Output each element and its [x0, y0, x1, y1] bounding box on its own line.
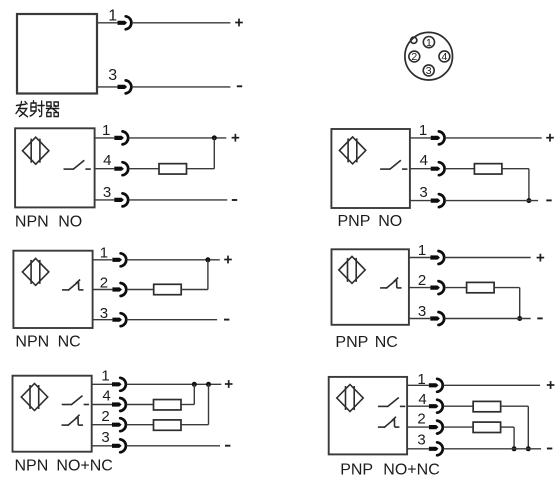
plus terminal	[235, 19, 243, 27]
wire pin4	[407, 405, 429, 407]
wire pin3 to minus	[443, 448, 541, 450]
sensor symbol diamond	[21, 384, 47, 411]
wire pin4 to load	[443, 405, 473, 407]
switch NC	[62, 280, 84, 291]
wire pin2	[93, 289, 113, 291]
svg-text:3: 3	[426, 65, 432, 77]
junction node A	[192, 382, 197, 387]
wire pin1 to plus	[129, 137, 227, 139]
wire pin3 to minus	[129, 199, 228, 201]
connector plug pin2	[429, 421, 443, 434]
wire vertical to pin3	[527, 406, 529, 449]
wire pin2	[407, 426, 429, 428]
wire load to node	[187, 168, 215, 170]
wire pin1	[93, 259, 113, 261]
wire pin3	[95, 199, 115, 201]
wire pin2 to load	[127, 289, 154, 291]
wire pin3 from transmitter box	[97, 86, 118, 88]
plus terminal	[547, 381, 555, 389]
svg-text:1: 1	[100, 245, 108, 262]
sensor symbol diamond	[23, 137, 49, 164]
connector plug pin3	[430, 312, 444, 325]
svg-text:3: 3	[108, 67, 117, 84]
minus terminal	[537, 317, 542, 319]
svg-text:2: 2	[100, 274, 108, 291]
connector plug pin4	[431, 162, 445, 175]
plus terminal	[232, 134, 240, 142]
svg-text:3: 3	[101, 429, 109, 446]
发	[16, 104, 25, 105]
wire vertical to pin3	[513, 427, 515, 449]
minus terminal	[547, 448, 552, 450]
minus terminal	[225, 445, 230, 447]
connector plug pin1	[112, 378, 126, 391]
wire pin4 to load	[126, 404, 154, 406]
wire pin3	[92, 445, 112, 447]
svg-text:3: 3	[419, 184, 427, 201]
wire vertical to node A	[193, 384, 195, 404]
load resistor	[467, 282, 495, 292]
connector plug pin2	[430, 281, 444, 294]
connector plug pin1	[431, 131, 445, 144]
connector plug pin1	[429, 379, 443, 392]
connector plug pin 3	[118, 80, 132, 93]
svg-text:1: 1	[417, 371, 425, 388]
switch NC	[62, 415, 84, 426]
svg-text:3: 3	[100, 305, 108, 322]
wire pin3	[409, 318, 430, 320]
switch NO	[62, 396, 89, 405]
wire load to corner	[493, 287, 519, 289]
sensor symbol diamond	[337, 385, 363, 412]
connector plug pin2	[112, 418, 126, 431]
wire load to corner	[502, 168, 529, 170]
wire pin4	[92, 404, 112, 406]
connector plug pin2	[112, 283, 126, 296]
wire pin4	[95, 168, 115, 170]
minus terminal	[224, 319, 229, 321]
svg-text:NC: NC	[375, 334, 398, 351]
sensor box PNP NC	[332, 249, 409, 324]
wire pin1 to plus	[445, 137, 542, 139]
transmitter label 发射器 (hand-drawn glyphs)	[16, 101, 59, 117]
transmitter box 发射器	[17, 14, 97, 94]
junction node	[205, 257, 210, 262]
wire pin1 to plus	[443, 384, 540, 386]
wire pin2 to load	[443, 426, 472, 428]
minus terminal	[232, 199, 237, 201]
pin 4 circle	[439, 51, 450, 62]
wire pin4	[410, 168, 431, 170]
器	[47, 102, 51, 106]
minus terminal	[546, 199, 551, 201]
connector face circle	[405, 32, 453, 80]
load resistor NC	[473, 422, 501, 432]
wire pin4 to load	[129, 168, 159, 170]
load resistor NC	[154, 420, 182, 430]
svg-text:1: 1	[102, 122, 110, 139]
svg-text:4: 4	[441, 51, 447, 63]
wire pin3	[410, 200, 431, 202]
svg-text:NPN: NPN	[15, 457, 49, 474]
svg-text:1: 1	[101, 368, 109, 385]
sensor symbol diamond	[339, 137, 365, 164]
svg-text:NPN: NPN	[15, 214, 49, 231]
plus terminal	[546, 134, 554, 142]
svg-text:3: 3	[417, 431, 425, 448]
connector plug pin3	[112, 439, 126, 452]
svg-text:2: 2	[101, 408, 109, 425]
wire pin3 to minus	[132, 86, 231, 88]
svg-text:NO+NC: NO+NC	[56, 457, 112, 474]
svg-text:4: 4	[103, 152, 111, 169]
wire pin1	[92, 383, 112, 385]
svg-text:2: 2	[417, 410, 425, 427]
sensor box NPN NO+NC	[13, 376, 92, 452]
load resistor NO	[154, 400, 182, 410]
connector plug pin3	[114, 193, 128, 206]
connector plug pin1	[112, 253, 126, 266]
svg-text:1: 1	[418, 242, 426, 259]
load resistor	[154, 284, 182, 294]
pin 2 circle	[409, 51, 420, 62]
connector plug pin4	[114, 162, 128, 175]
wire pin1 to plus	[127, 259, 220, 261]
sensor symbol diamond	[339, 256, 365, 283]
junction node	[526, 198, 531, 203]
wire pin3 to minus	[127, 319, 217, 321]
pin 3 circle	[423, 65, 434, 76]
connector plug pin3	[112, 313, 126, 326]
switch NC	[378, 417, 400, 428]
keying notch	[411, 37, 417, 43]
junction node A	[526, 446, 531, 451]
switch NO	[378, 398, 405, 407]
connector plug pin4	[112, 398, 126, 411]
wire vertical to node B	[208, 384, 210, 424]
svg-text:NPN: NPN	[15, 334, 49, 351]
junction node	[212, 135, 217, 140]
wire load to corner	[180, 404, 194, 406]
svg-text:2: 2	[418, 272, 426, 289]
wire node vertical	[213, 138, 215, 169]
svg-text:1: 1	[108, 8, 117, 25]
plus terminal	[224, 256, 232, 264]
svg-text:4: 4	[102, 388, 110, 405]
wire pin3 to minus	[445, 200, 538, 202]
wire pin1	[407, 384, 429, 386]
wire pin2 to load	[126, 424, 154, 426]
switch NO	[380, 160, 407, 169]
wire pin1	[410, 137, 431, 139]
minus terminal	[237, 85, 242, 87]
wire pin3 to minus	[445, 318, 531, 320]
load resistor	[159, 164, 187, 174]
svg-text:NC: NC	[58, 334, 81, 351]
plus terminal	[537, 254, 545, 262]
load resistor	[474, 164, 502, 174]
svg-text:3: 3	[103, 184, 111, 201]
connector plug pin4	[429, 400, 443, 413]
sensor box PNP NO+NC	[329, 377, 407, 455]
svg-text:NO: NO	[378, 213, 402, 230]
wire pin3	[93, 319, 113, 321]
junction node B	[512, 446, 517, 451]
wire pin2	[92, 424, 112, 426]
sensor box NPN NC	[13, 251, 92, 328]
wire pin1 to plus	[126, 383, 221, 385]
wire pin2	[409, 287, 430, 289]
sensor box PNP NO	[331, 129, 410, 208]
sensor symbol diamond	[22, 258, 48, 285]
wire load to corner	[181, 289, 208, 291]
svg-text:2: 2	[411, 51, 417, 63]
wire pin1 to plus	[132, 22, 231, 24]
svg-text:NO: NO	[58, 214, 82, 231]
wire load to corner	[180, 424, 208, 426]
connector plug pin3	[431, 194, 445, 207]
junction node B	[206, 382, 211, 387]
svg-text:1: 1	[426, 37, 432, 49]
connector plug pin1	[430, 251, 444, 264]
wire pin3	[407, 448, 429, 450]
plus terminal	[225, 380, 233, 388]
wire load to corner	[501, 426, 514, 428]
wire load to corner	[500, 405, 528, 407]
connector plug pin1	[114, 131, 128, 144]
wire pin1	[409, 257, 430, 259]
wire vertical to pin1 node	[207, 260, 209, 290]
svg-text:1: 1	[419, 122, 427, 139]
svg-text:PNP: PNP	[338, 213, 371, 230]
svg-text:4: 4	[420, 152, 428, 169]
wire pin4 to load	[445, 168, 475, 170]
wire pin3 to minus	[126, 445, 220, 447]
射	[31, 103, 36, 111]
svg-text:3: 3	[418, 303, 426, 320]
wire pin1 to plus	[445, 257, 531, 259]
switch NO	[64, 160, 91, 169]
wire pin1 from transmitter box	[97, 22, 118, 24]
switch NC	[380, 278, 402, 289]
svg-text:NO+NC: NO+NC	[383, 462, 439, 479]
junction node	[517, 316, 522, 321]
sensor box NPN NO	[15, 128, 95, 207]
wire vertical to pin3	[528, 169, 530, 201]
wire pin2 to load	[445, 287, 468, 289]
pin 1 circle	[423, 37, 434, 48]
svg-text:PNP: PNP	[335, 334, 368, 351]
wire vertical to pin3	[519, 288, 521, 319]
wire pin1	[95, 137, 115, 139]
connector plug pin3	[429, 442, 443, 455]
load resistor NO	[473, 401, 501, 411]
svg-text:PNP: PNP	[340, 462, 373, 479]
svg-text:4: 4	[418, 391, 426, 408]
connector plug pin 1	[118, 16, 132, 29]
